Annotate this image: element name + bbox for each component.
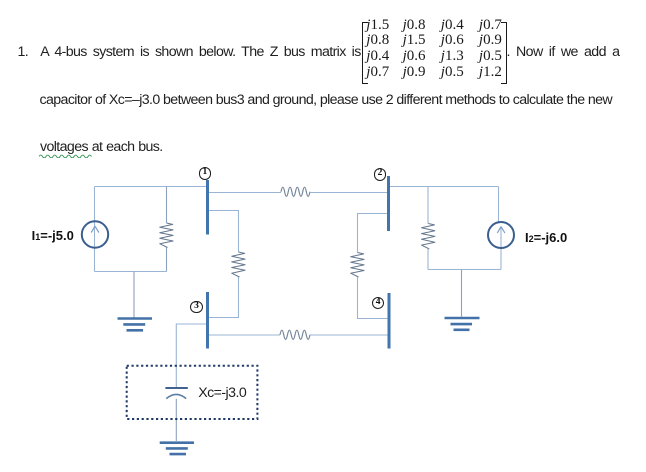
ground G2 xyxy=(445,318,480,330)
current source I2 circle xyxy=(488,222,514,248)
wire: line 1-2 left segment xyxy=(209,192,281,194)
paragraph text line 1 xyxy=(18,45,29,59)
node label 1 xyxy=(199,167,212,180)
inductor L13 coil xyxy=(232,252,245,277)
Z bus matrix xyxy=(0,0,646,1)
inductor L2 bottom lead xyxy=(427,249,429,270)
wire: ground tap G2 xyxy=(461,270,463,317)
wire: bus1 to L13 (right then down) xyxy=(209,211,239,253)
label I2 xyxy=(525,231,567,244)
current source I1 circle xyxy=(82,221,108,247)
line 1-2 reactor zigzag xyxy=(281,187,310,196)
ground G3 xyxy=(160,443,194,454)
dotted box around capacitor xyxy=(127,366,258,419)
paragraph text line 3 xyxy=(40,140,163,154)
grammar wavy underline under "voltages" xyxy=(39,153,92,158)
wire: left loop top (source to bus1) xyxy=(95,186,207,188)
wire: capacitor to ground G3 xyxy=(175,399,177,441)
inductor L1 coil xyxy=(160,223,173,248)
paragraph text line 2 xyxy=(40,93,613,107)
inductor L1 bottom lead xyxy=(166,248,168,272)
wire: line 3-4 left segment xyxy=(209,334,280,336)
wire: L24 to bus4 xyxy=(358,277,388,319)
wire: bus3 to capacitor (left then down) xyxy=(176,324,206,387)
wire: L13 to bus3 xyxy=(209,277,239,318)
wire: right loop bottom xyxy=(428,269,501,271)
wire: bus2 to L24 (left then down) xyxy=(358,214,388,253)
wire: left loop bottom xyxy=(95,271,167,273)
label I1 xyxy=(32,229,74,242)
left bracket xyxy=(362,22,368,84)
wire: source I2 arrow shaft and lower lead xyxy=(500,228,502,270)
wire: line 3-4 right segment xyxy=(310,334,388,336)
right bracket xyxy=(501,22,507,84)
node label 3 xyxy=(190,301,203,314)
bus 4 bar xyxy=(388,293,391,349)
capacitor Xc bottom plate (arc) xyxy=(166,394,186,398)
wire: line 1-2 right segment xyxy=(310,192,387,194)
node label 4 xyxy=(372,297,385,310)
inductor L1 top lead xyxy=(166,187,168,224)
label Xc xyxy=(198,386,246,400)
wire: bus2 top to source I2 xyxy=(390,186,499,188)
ground G1 xyxy=(118,319,153,331)
inductor L24 coil xyxy=(351,253,364,278)
line 3-4 reactor zigzag xyxy=(280,330,310,339)
wire: left loop left vertical (through source) xyxy=(94,187,96,272)
node label 2 xyxy=(374,168,387,181)
wire: right loop right vertical upper (to source I2 top) xyxy=(498,187,500,224)
bus 2 bar xyxy=(387,176,390,231)
bus 3 bar xyxy=(206,292,209,349)
bus 1 bar xyxy=(206,180,209,235)
current source I1 arrowhead xyxy=(91,226,99,232)
current source I2 arrowhead xyxy=(497,227,505,233)
wire: ground tap G1 xyxy=(133,272,135,318)
wire: right loop left vertical + L2 top lead xyxy=(427,187,429,224)
capacitor Xc top plate xyxy=(165,387,187,389)
inductor L2 coil xyxy=(422,224,435,250)
